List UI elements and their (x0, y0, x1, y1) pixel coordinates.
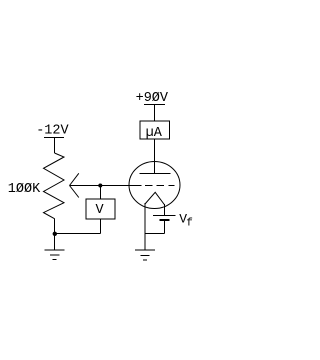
wire (70, 185, 142, 187)
battery Vf long plate (153, 215, 175, 217)
terminal -12V (44, 137, 64, 139)
label Vf (179, 212, 193, 230)
voltmeter V box (86, 199, 115, 219)
wire (145, 233, 164, 235)
filament (cathode) (145, 192, 164, 204)
ground (right) (135, 250, 155, 260)
wire (144, 203, 146, 250)
node wiper junction (98, 184, 102, 188)
svg-text:f: f (186, 218, 193, 230)
wiper arrow (70, 173, 79, 197)
wire (54, 138, 56, 154)
svg-text:+9ØV: +9ØV (136, 91, 169, 106)
svg-text:µA: µA (146, 126, 163, 141)
potentiometer R1 100K zigzag (44, 153, 65, 219)
svg-text:-12V: -12V (36, 124, 69, 139)
grid (dashed) (145, 185, 175, 187)
tube V1 envelope (129, 162, 180, 209)
battery Vf short plate (159, 219, 169, 221)
svg-text:V: V (95, 203, 104, 218)
wire (100, 219, 102, 234)
wire (154, 105, 156, 122)
wire (54, 219, 56, 250)
node bottom junction (53, 232, 57, 236)
svg-text:1ØØK: 1ØØK (8, 182, 41, 197)
terminal +90V (144, 104, 165, 106)
wire (55, 233, 101, 235)
wire (154, 139, 156, 173)
meter M1 microammeter box (140, 121, 170, 141)
ground (left) (45, 250, 65, 260)
wire (163, 220, 165, 234)
plate (anode) (140, 173, 171, 175)
wire (163, 204, 165, 215)
wire (99, 186, 101, 200)
